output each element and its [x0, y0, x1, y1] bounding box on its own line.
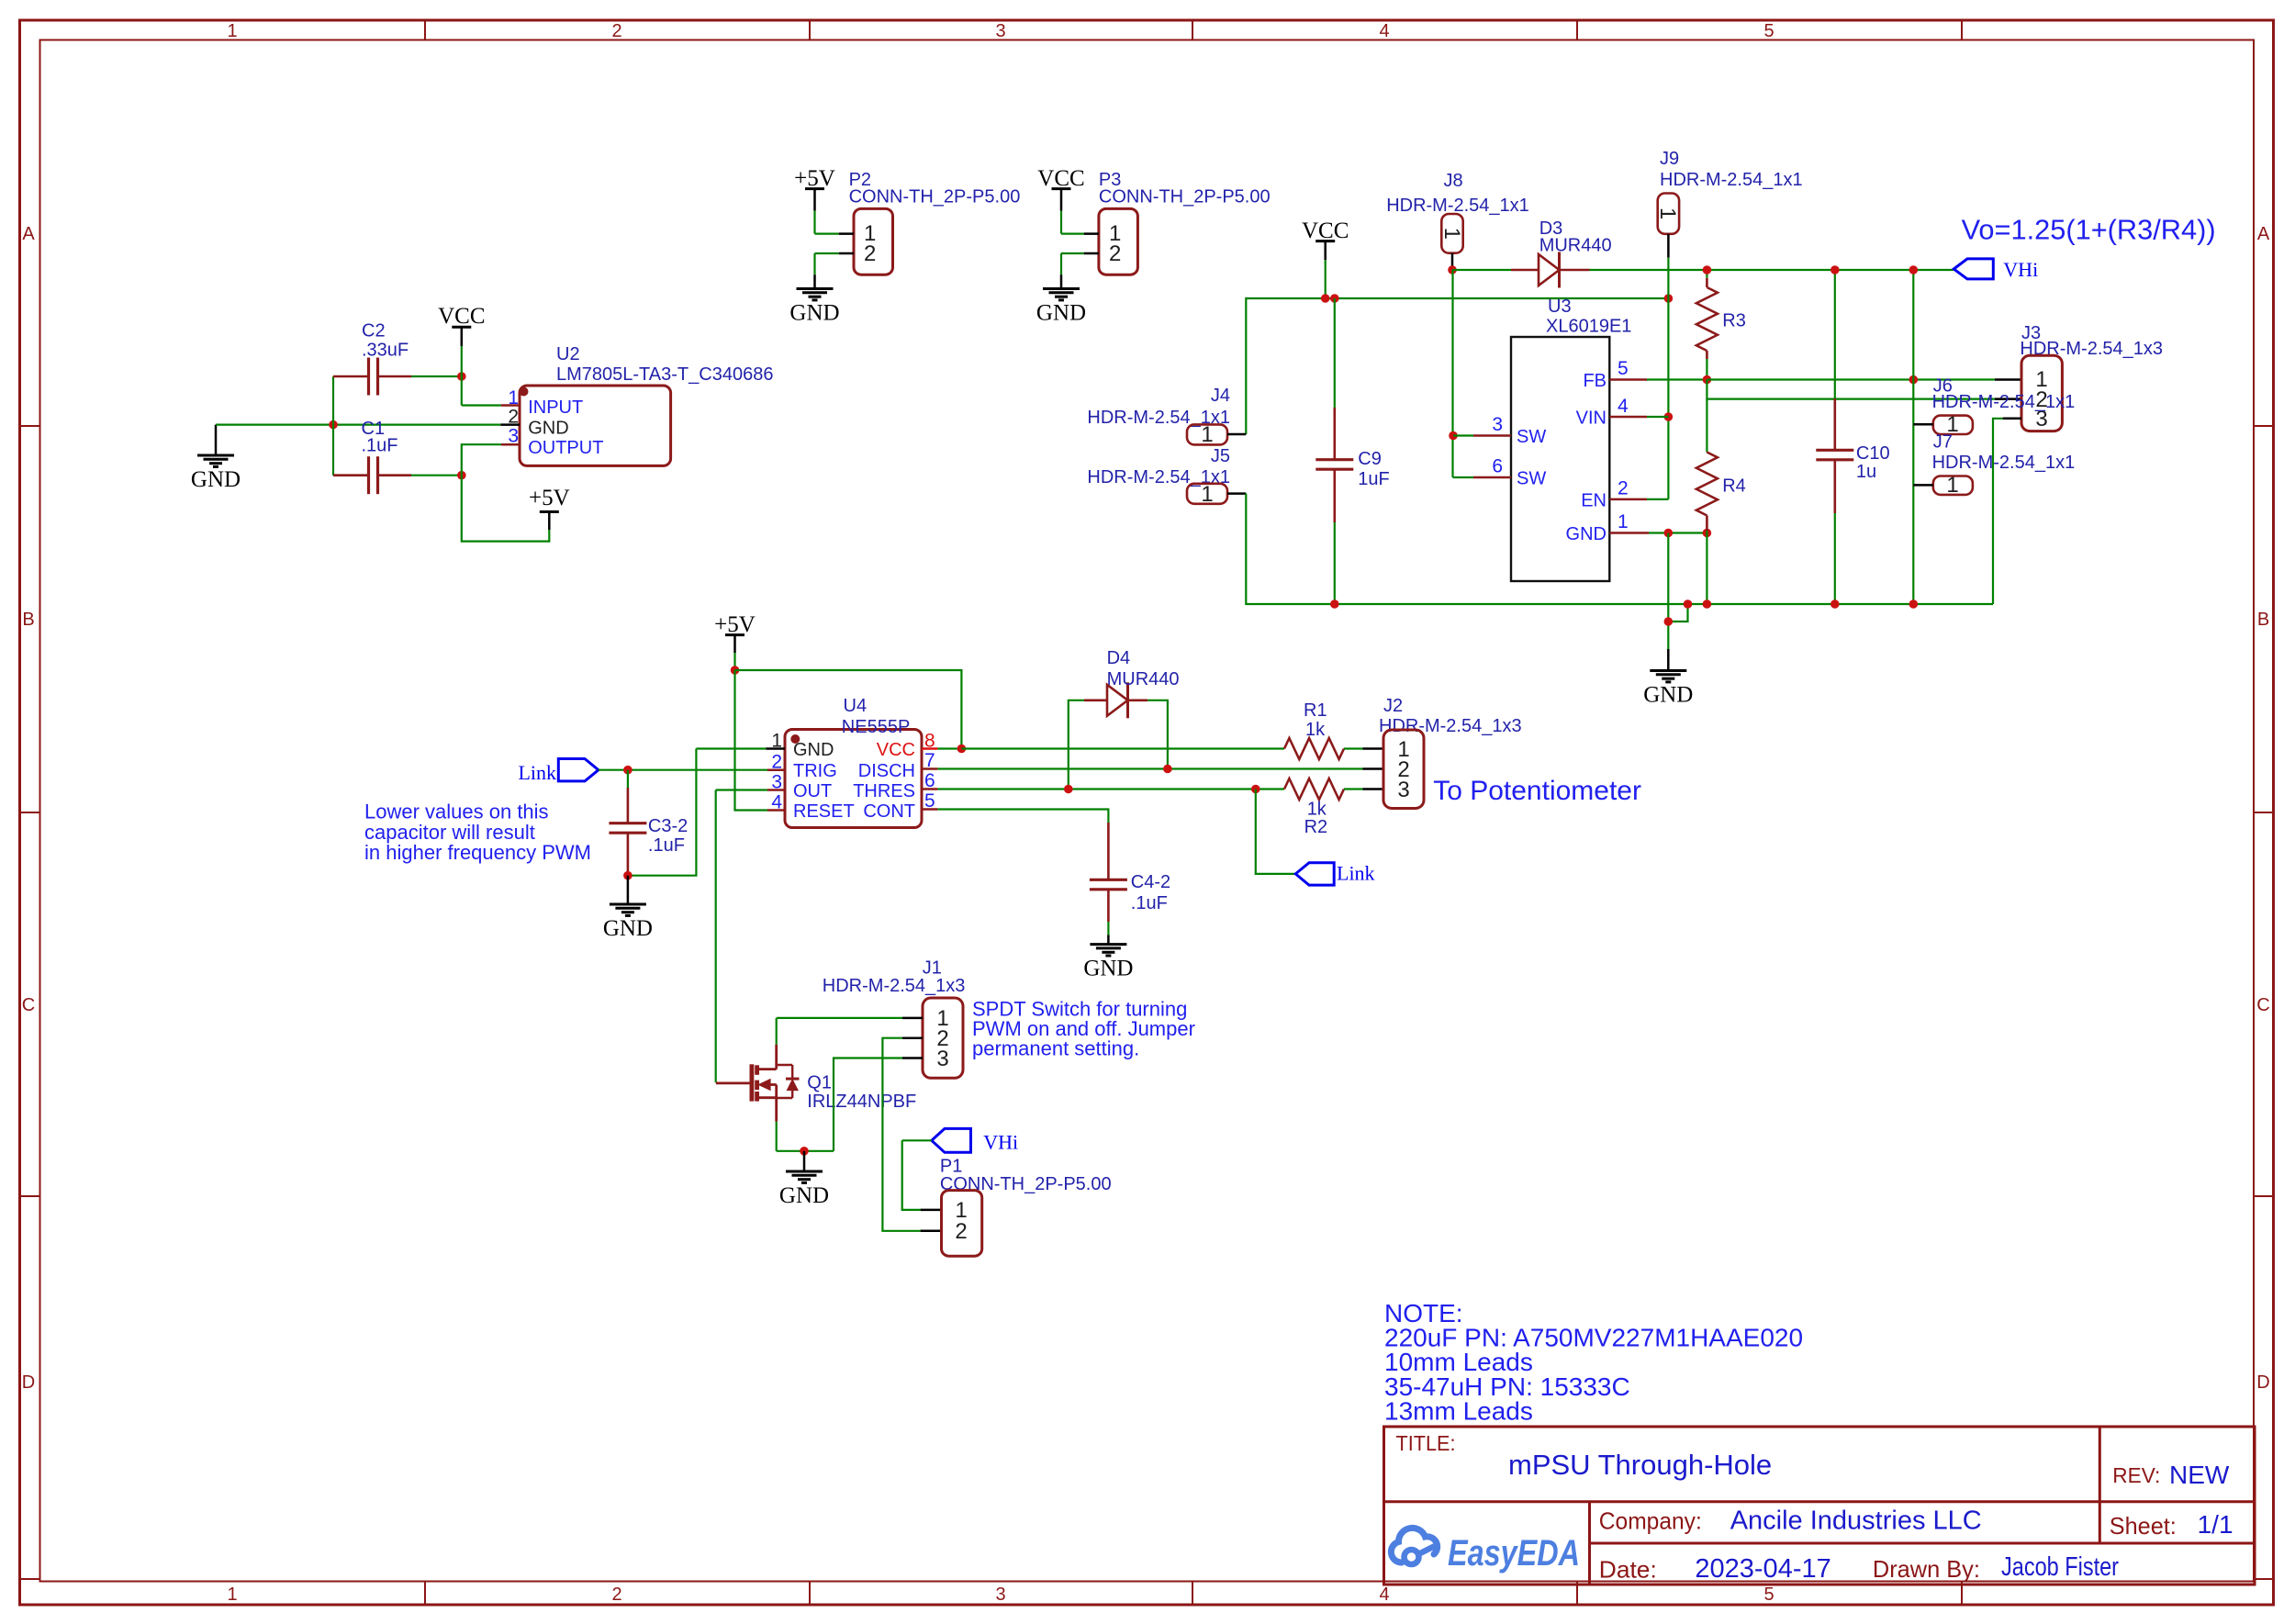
node junction +5V / U4: [731, 666, 740, 675]
connector J3 HDR-M-2.54_1x3: [2020, 323, 2163, 431]
EasyEDA logo: [1391, 1528, 1580, 1574]
svg-text:4: 4: [1379, 21, 1389, 41]
svg-text:mPSU Through-Hole: mPSU Through-Hole: [1508, 1449, 1772, 1481]
svg-text:3: 3: [936, 1047, 948, 1071]
ground symbol GND (XL6019): [1643, 671, 1693, 708]
wire VCC to P3 pin1: [1061, 233, 1099, 235]
wire +5V down to RESET pin4: [735, 670, 768, 811]
sheet value 1/1: [2198, 1510, 2233, 1539]
column ticks bottom: [425, 1582, 1962, 1606]
svg-text:.1uF: .1uF: [362, 436, 398, 456]
svg-text:VCC: VCC: [877, 740, 915, 760]
svg-text:C: C: [2256, 995, 2269, 1015]
svg-text:B: B: [2257, 610, 2269, 630]
svg-text:CONN-TH_2P-P5.00: CONN-TH_2P-P5.00: [849, 187, 1021, 207]
power flag VCC (U2): [438, 304, 485, 376]
svg-text:3: 3: [995, 21, 1005, 41]
annotation NOTE block: [1384, 1299, 1803, 1426]
node junction D4 cathode / DISCH: [1163, 765, 1172, 774]
company value Ancile Industries LLC: [1730, 1506, 1982, 1535]
svg-text:Link: Link: [1337, 862, 1375, 885]
U2 pin 2 GND: [500, 407, 520, 428]
node junction C9 bottom: [1330, 599, 1339, 609]
svg-text:D4: D4: [1107, 648, 1131, 668]
svg-text:J4: J4: [1211, 386, 1230, 406]
svg-text:4: 4: [1618, 396, 1629, 417]
node junction jog top on rail: [1684, 599, 1693, 609]
U3 pin 6 SW: [1453, 456, 1512, 478]
wire VCC junction down to U2 pin1: [462, 376, 501, 406]
svg-text:U2: U2: [556, 344, 580, 364]
svg-text:VCC: VCC: [1302, 218, 1349, 243]
wire U4 pin1 GND path: [628, 749, 766, 876]
IC U4 NE555P: [785, 696, 922, 828]
svg-text:Date:: Date:: [1599, 1555, 1657, 1583]
svg-text:Company:: Company:: [1599, 1507, 1702, 1535]
wire J6/J7 vertical: [1912, 270, 1914, 604]
title block Company label: [1599, 1507, 1702, 1535]
node junction R3 top: [1703, 265, 1712, 274]
svg-text:1/1: 1/1: [2198, 1510, 2233, 1539]
svg-text:.1uF: .1uF: [648, 835, 685, 856]
U2 pin 3 OUTPUT: [501, 426, 520, 447]
header J6 HDR-M-2.54_1x1: [1932, 376, 2076, 438]
svg-text:2: 2: [611, 1585, 621, 1605]
J6 pin lead: [1913, 423, 1933, 426]
annotation SPDT switch note: [972, 998, 1195, 1060]
svg-text:HDR-M-2.54_1x3: HDR-M-2.54_1x3: [1379, 716, 1522, 736]
wire GND net to U2 pin2: [216, 424, 500, 426]
connector P1 CONN-TH_2P-P5.00: [940, 1157, 1112, 1257]
title block REV label: [2112, 1463, 2160, 1487]
svg-text:2: 2: [864, 241, 876, 266]
svg-text:D: D: [22, 1372, 35, 1393]
svg-text:B: B: [22, 610, 34, 630]
node junction C10 top: [1830, 265, 1840, 274]
wire P3 pin2 to GND: [1061, 253, 1099, 289]
title block divider logo cell: [1588, 1502, 1591, 1585]
U4 pin 7 DISCH: [922, 750, 1363, 771]
svg-text:GND: GND: [1036, 301, 1086, 326]
node junction C9 top: [1330, 294, 1339, 303]
row ticks right: [2254, 426, 2274, 1579]
row labels left A-D: [22, 224, 36, 1393]
svg-text:VCC: VCC: [1037, 166, 1084, 191]
U4 pin 6 THRES: [922, 770, 1284, 791]
row ticks left: [20, 426, 40, 1579]
svg-text:C2: C2: [362, 321, 386, 342]
svg-text:5: 5: [1763, 1585, 1774, 1605]
ground symbol GND (P3): [1036, 289, 1086, 326]
power flag +5V (U2 output): [529, 486, 570, 530]
svg-text:C: C: [22, 995, 35, 1015]
wire J8 down to SW pins: [1451, 270, 1453, 477]
title block Sheet label: [2110, 1512, 2177, 1540]
net flag VHi (P1): [932, 1128, 1018, 1153]
U3 pin 2 EN: [1609, 478, 1668, 499]
J5 pin lead: [1227, 492, 1246, 495]
connector J4 HDR-M-2.54_1x1: [1087, 386, 1230, 447]
svg-text:6: 6: [924, 770, 935, 791]
svg-text:HDR-M-2.54_1x1: HDR-M-2.54_1x1: [1932, 453, 2076, 473]
rev value NEW: [2169, 1461, 2230, 1489]
title block divider horizontal 1: [1384, 1500, 2256, 1503]
svg-text:HDR-M-2.54_1x1: HDR-M-2.54_1x1: [1386, 196, 1529, 216]
svg-text:3: 3: [771, 772, 782, 793]
svg-text:4: 4: [771, 792, 782, 813]
wire C1-C2 left vertical: [332, 376, 334, 476]
wire J1 pin2 to P1 pin2: [882, 1038, 941, 1231]
svg-text:J8: J8: [1443, 171, 1462, 191]
svg-text:DISCH: DISCH: [858, 761, 915, 781]
node junction C3-2 bottom: [623, 871, 633, 880]
svg-text:1: 1: [1946, 473, 1958, 498]
svg-text:1: 1: [1655, 207, 1680, 219]
svg-text:GND: GND: [1643, 683, 1693, 708]
svg-text:Lower values on this: Lower values on this: [364, 801, 549, 823]
svg-text:Jacob Fister: Jacob Fister: [2001, 1552, 2119, 1582]
svg-text:1: 1: [227, 21, 237, 41]
wire DISCH to J2 pin2: [1363, 767, 1384, 770]
svg-text:SW: SW: [1517, 469, 1546, 489]
node junction C10 bottom: [1830, 599, 1840, 609]
svg-text:IRLZ44NPBF: IRLZ44NPBF: [807, 1092, 916, 1112]
capacitor C9 1uF: [1315, 298, 1389, 604]
J4 pin lead: [1227, 433, 1246, 436]
connector P2 CONN-TH_2P-P5.00: [849, 170, 1021, 274]
svg-text:EN: EN: [1581, 491, 1606, 511]
svg-text:2023-04-17: 2023-04-17: [1695, 1554, 1830, 1584]
svg-text:3: 3: [1397, 778, 1409, 802]
svg-text:MUR440: MUR440: [1539, 236, 1612, 256]
svg-text:3: 3: [995, 1585, 1005, 1605]
svg-text:4: 4: [1379, 1585, 1389, 1605]
formula Vo=1.25(1+(R3/R4)): [1962, 214, 2216, 246]
svg-text:A: A: [22, 224, 35, 244]
U3 pin 4 VIN: [1609, 396, 1668, 417]
svg-text:U4: U4: [844, 696, 868, 716]
ground symbol GND (C3-2): [603, 876, 653, 941]
capacitor C10 1u: [1816, 270, 1889, 604]
U4 pin 2 TRIG: [767, 752, 785, 773]
svg-text:OUT: OUT: [793, 781, 832, 801]
svg-text:2: 2: [508, 407, 519, 428]
node junction TRIG / C3-2: [623, 766, 633, 775]
power flag VCC (XL6019): [1302, 218, 1349, 298]
column labels top 1-5: [227, 21, 1774, 41]
wire Q1 drain to J1 pin1: [777, 1018, 923, 1045]
wire VCC rail (J4 loop top): [1246, 298, 1668, 434]
svg-text:VCC: VCC: [438, 304, 485, 329]
svg-text:C3-2: C3-2: [648, 816, 688, 836]
node junction VCC / EN vertical: [1664, 294, 1674, 303]
svg-text:HDR-M-2.54_1x1: HDR-M-2.54_1x1: [1932, 392, 2076, 412]
svg-text:GND: GND: [789, 301, 839, 326]
capacitor C3-2 .1uF: [609, 770, 688, 876]
svg-text:8: 8: [924, 731, 935, 752]
title text mPSU Through-Hole: [1508, 1449, 1772, 1481]
title block outline: [1384, 1427, 2256, 1585]
connector J1 HDR-M-2.54_1x3: [823, 958, 966, 1079]
annotation To Potentiometer: [1433, 776, 1641, 806]
wire J5 to bottom rail: [1246, 494, 1993, 604]
node junction R4 / bottom rail: [1703, 599, 1712, 609]
svg-text:TITLE:: TITLE:: [1396, 1431, 1456, 1455]
svg-text:+5V: +5V: [529, 486, 570, 510]
svg-text:Link: Link: [518, 761, 556, 784]
svg-text:R3: R3: [1722, 311, 1746, 331]
svg-text:CONT: CONT: [863, 801, 915, 822]
wire Link2 branch: [1256, 790, 1296, 874]
svg-text:5: 5: [1618, 358, 1629, 379]
connector J5 HDR-M-2.54_1x1: [1087, 446, 1230, 507]
svg-text:2: 2: [955, 1219, 967, 1244]
svg-text:1k: 1k: [1305, 720, 1326, 740]
svg-text:3: 3: [1492, 414, 1503, 435]
wire +5V to P2 pin1: [815, 233, 855, 235]
drawn by value Jacob Fister: [2001, 1552, 2119, 1582]
svg-text:GND: GND: [528, 419, 568, 439]
svg-text:C9: C9: [1358, 449, 1382, 469]
svg-text:INPUT: INPUT: [528, 398, 583, 418]
svg-text:TRIG: TRIG: [793, 761, 837, 781]
wire Link to TRIG: [599, 769, 767, 771]
svg-text:J5: J5: [1211, 446, 1230, 466]
wire J1 pin3 to Q1 source rail: [834, 1058, 923, 1151]
diode D3 MUR440: [1452, 218, 1612, 288]
svg-text:THRES: THRES: [853, 781, 915, 801]
title block Drawn By label: [1873, 1555, 1980, 1583]
svg-text:2: 2: [611, 21, 621, 41]
svg-text:J9: J9: [1660, 149, 1679, 169]
capacitor C4-2 .1uF: [1090, 809, 1170, 945]
svg-text:.33uF: .33uF: [362, 341, 409, 361]
svg-text:1: 1: [771, 731, 782, 752]
svg-text:Ancile Industries LLC: Ancile Industries LLC: [1730, 1506, 1982, 1535]
svg-text:VIN: VIN: [1576, 409, 1606, 429]
svg-text:2: 2: [1109, 241, 1121, 266]
U2 pin 1 INPUT: [501, 387, 520, 409]
svg-text:HDR-M-2.54_1x1: HDR-M-2.54_1x1: [1660, 170, 1803, 190]
svg-text:HDR-M-2.54_1x3: HDR-M-2.54_1x3: [823, 976, 966, 996]
svg-text:D: D: [2256, 1372, 2269, 1393]
node junction C1 right / +5V: [457, 471, 466, 480]
svg-text:7: 7: [924, 750, 935, 771]
svg-text:VHi: VHi: [983, 1131, 1018, 1154]
svg-text:GND: GND: [1083, 957, 1133, 981]
svg-text:2: 2: [1618, 478, 1629, 499]
power flag +5V (P2): [794, 166, 835, 234]
diode D4 MUR440: [1069, 648, 1180, 790]
svg-text:R4: R4: [1722, 476, 1746, 497]
svg-text:RESET: RESET: [793, 801, 855, 822]
svg-text:+5V: +5V: [714, 612, 756, 637]
wire J3 pin3 to bottom rail: [1993, 419, 2021, 604]
svg-text:+5V: +5V: [794, 166, 835, 191]
U4 pin 8 VCC: [922, 731, 961, 752]
resistor R2 1k: [1284, 778, 1383, 837]
date value 2023-04-17: [1695, 1554, 1830, 1584]
node junction VCC pin8: [957, 745, 967, 754]
svg-text:EasyEDA: EasyEDA: [1448, 1533, 1580, 1574]
wire FB branch to J3 pin2: [1707, 380, 2021, 399]
wire Q1 source to GND rail: [777, 1122, 834, 1151]
column labels bottom 1-5: [227, 1585, 1774, 1605]
svg-text:GND: GND: [793, 740, 834, 760]
header J7 HDR-M-2.54_1x1: [1932, 432, 2076, 498]
svg-text:5: 5: [1763, 21, 1774, 41]
node junction FB / J6 vertical: [1909, 375, 1919, 385]
svg-text:1u: 1u: [1856, 462, 1876, 482]
title block divider right column: [2099, 1427, 2101, 1543]
svg-text:U3: U3: [1548, 297, 1572, 317]
svg-text:3: 3: [508, 426, 519, 447]
svg-text:1: 1: [1201, 422, 1213, 447]
voltage regulator U2 LM7805L: [520, 344, 774, 465]
node junction VCC stub: [1321, 294, 1330, 303]
ground symbol GND (U2 input): [191, 425, 241, 492]
U4 pin 3 OUT: [767, 772, 785, 793]
node junction R3 bottom / FB: [1703, 375, 1712, 385]
node junction SW3 tee: [1449, 431, 1458, 441]
net flag Link (R2 side): [1295, 862, 1374, 886]
wire pin8 to R1: [961, 747, 1284, 749]
svg-text:Sheet:: Sheet:: [2110, 1512, 2177, 1540]
svg-text:.1uF: .1uF: [1131, 893, 1168, 913]
node junction J8 / D3 wire: [1448, 265, 1457, 274]
ground symbol GND (Q1): [779, 1151, 829, 1208]
node junction jog bottom: [1664, 617, 1674, 626]
svg-text:REV:: REV:: [2112, 1463, 2160, 1487]
J7 pin lead: [1913, 484, 1933, 487]
svg-text:MUR440: MUR440: [1107, 669, 1180, 689]
IC U3 XL6019E1: [1511, 297, 1631, 581]
svg-text:1: 1: [1618, 511, 1629, 532]
resistor R1 1k: [1284, 700, 1383, 759]
node junction J6J7 vertical top: [1909, 265, 1919, 274]
title block TITLE label: [1396, 1431, 1456, 1455]
svg-text:in higher frequency PWM: in higher frequency PWM: [364, 841, 591, 864]
node junction source / GND: [800, 1147, 809, 1156]
node junction GND pin / R4 bottom: [1703, 529, 1712, 538]
node junction J6J7 vertical bottom: [1909, 599, 1919, 609]
svg-text:R1: R1: [1304, 700, 1327, 721]
node junction THRES / Link2: [1251, 785, 1260, 794]
svg-text:A: A: [2257, 224, 2270, 244]
transistor Q1 IRLZ44NPBF: [716, 1045, 916, 1122]
svg-text:C10: C10: [1856, 443, 1890, 464]
node junction GND pin / vertical: [1664, 529, 1674, 538]
header J9 HDR-M-2.54_1x1: [1655, 149, 1802, 258]
svg-text:GND: GND: [191, 467, 241, 492]
svg-text:GND: GND: [779, 1183, 829, 1208]
node junction VIN tee: [1664, 412, 1674, 421]
svg-text:NE555P: NE555P: [842, 717, 911, 737]
svg-text:J2: J2: [1383, 696, 1403, 716]
capacitor C1 .1uF: [333, 419, 462, 494]
U4 pin 5 CONT: [922, 790, 1108, 812]
wire FB to J3 pin1: [1707, 378, 2021, 380]
capacitor C2 .33uF: [333, 321, 462, 396]
svg-text:5: 5: [924, 790, 935, 812]
connector P3 CONN-TH_2P-P5.00: [1099, 170, 1271, 274]
wire OUT to Q1 gate: [716, 790, 767, 1083]
svg-text:2: 2: [771, 752, 782, 773]
svg-text:Drawn By:: Drawn By:: [1873, 1555, 1980, 1583]
svg-text:OUTPUT: OUTPUT: [528, 438, 603, 458]
power flag VCC (P3): [1037, 166, 1084, 234]
U4 pin 4 RESET: [767, 792, 785, 813]
node junction C2/VCC/U2pin1: [457, 372, 466, 381]
row labels right A-D: [2256, 224, 2270, 1393]
svg-text:VHi: VHi: [2003, 258, 2038, 281]
U3 pin 3 SW: [1453, 414, 1511, 436]
wire P1 pin1 to VHi: [902, 1140, 942, 1210]
svg-text:GND: GND: [603, 916, 653, 941]
wire +5V to VCC pin8: [735, 670, 962, 749]
annotation lower values note: [364, 801, 591, 864]
wire D3 cathode to VHi: [1590, 269, 1954, 271]
connector J2 HDR-M-2.54_1x3: [1379, 696, 1522, 809]
node junction D4 anode / THRES: [1064, 785, 1073, 794]
svg-text:13mm Leads: 13mm Leads: [1384, 1397, 1533, 1426]
svg-text:FB: FB: [1583, 371, 1606, 391]
power flag +5V (NE555): [714, 612, 756, 670]
svg-text:Vo=1.25(1+(R3/R4)): Vo=1.25(1+(R3/R4)): [1962, 214, 2216, 246]
U3 pin 5 FB: [1609, 358, 1707, 380]
svg-text:1uF: 1uF: [1358, 469, 1389, 489]
svg-text:Q1: Q1: [807, 1073, 832, 1093]
svg-text:XL6019E1: XL6019E1: [1546, 317, 1631, 337]
node junction C1/C2 left: [329, 420, 338, 430]
svg-text:SW: SW: [1517, 427, 1546, 447]
wire J9 / EN vertical: [1667, 258, 1669, 499]
svg-text:6: 6: [1492, 456, 1503, 477]
net flag Link (TRIG): [518, 759, 598, 785]
svg-text:CONN-TH_2P-P5.00: CONN-TH_2P-P5.00: [1099, 187, 1271, 207]
net flag VHi (output): [1954, 258, 2038, 281]
svg-text:NEW: NEW: [2169, 1461, 2230, 1489]
ground symbol GND (P2): [789, 289, 839, 326]
svg-text:To Potentiometer: To Potentiometer: [1433, 776, 1641, 806]
svg-text:J7: J7: [1933, 432, 1953, 453]
svg-text:1: 1: [227, 1585, 237, 1605]
title block Date label: [1599, 1555, 1657, 1583]
title block divider horizontal 2: [1590, 1542, 2256, 1545]
ground symbol GND (C4-2): [1083, 945, 1133, 981]
U3 pin 1 GND: [1609, 511, 1707, 533]
wire P2 pin2 to GND: [815, 253, 855, 289]
resistor R4: [1696, 399, 1746, 604]
svg-text:GND: GND: [1566, 524, 1606, 544]
svg-text:R2: R2: [1304, 817, 1328, 837]
header J8 HDR-M-2.54_1x1: [1386, 171, 1529, 266]
svg-text:LM7805L-TA3-T_C340686: LM7805L-TA3-T_C340686: [556, 364, 773, 385]
svg-text:C4-2: C4-2: [1131, 872, 1170, 892]
svg-text:permanent setting.: permanent setting.: [972, 1037, 1139, 1060]
svg-text:1: 1: [1201, 482, 1213, 507]
resistor R3: [1696, 270, 1746, 380]
wire GND jog to ground: [1668, 533, 1687, 671]
column ticks top: [425, 20, 1962, 40]
wire U2 output to +5V: [462, 444, 550, 541]
U4 pin 1 GND: [766, 731, 785, 752]
svg-text:1: 1: [1439, 228, 1464, 240]
